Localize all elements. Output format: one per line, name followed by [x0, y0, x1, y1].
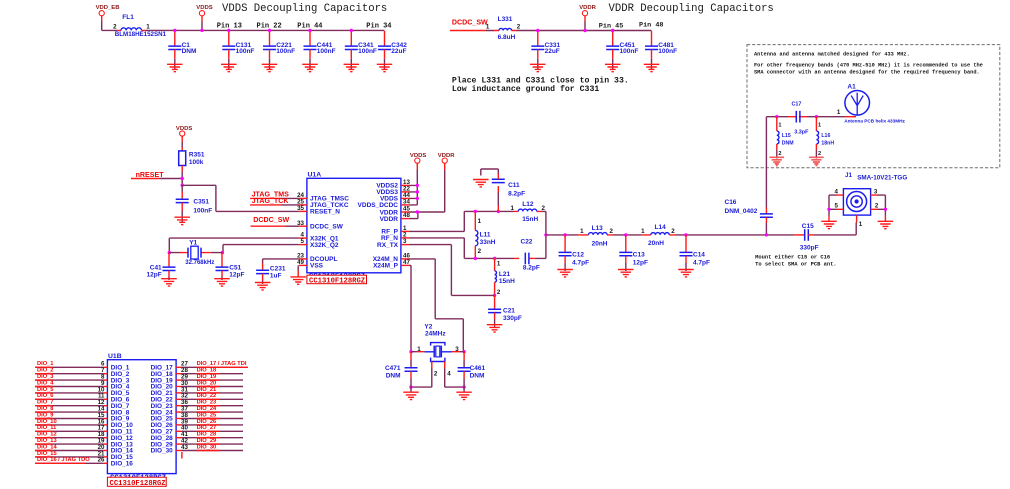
svg-text:DIO_16 / JTAG TDO: DIO_16 / JTAG TDO	[37, 457, 90, 463]
svg-text:DCDC_SW: DCDC_SW	[452, 19, 488, 27]
svg-text:2: 2	[434, 370, 438, 377]
svg-text:SMA connector with an antenna: SMA connector with an antenna designed f…	[754, 70, 980, 76]
svg-text:C51: C51	[229, 265, 241, 272]
svg-text:12pF: 12pF	[229, 272, 244, 279]
svg-text:FL1: FL1	[122, 14, 134, 21]
svg-text:DIO_6: DIO_6	[37, 393, 53, 399]
svg-text:4.7pF: 4.7pF	[693, 260, 710, 267]
svg-text:DIO_4: DIO_4	[37, 380, 54, 386]
svg-text:L14: L14	[655, 224, 667, 231]
svg-text:Pin 45: Pin 45	[599, 23, 623, 31]
svg-text:1: 1	[511, 205, 515, 212]
svg-text:1: 1	[417, 346, 421, 353]
svg-text:100nF: 100nF	[276, 48, 295, 55]
svg-text:3: 3	[874, 188, 878, 195]
svg-text:C14: C14	[693, 252, 705, 259]
svg-text:BLM18HE152SN1: BLM18HE152SN1	[115, 31, 167, 38]
svg-text:22uF: 22uF	[391, 48, 406, 55]
svg-text:C15: C15	[802, 223, 814, 230]
svg-text:4.7pF: 4.7pF	[572, 260, 589, 267]
svg-text:DIO_12: DIO_12	[37, 432, 57, 438]
svg-text:U1A: U1A	[308, 172, 322, 179]
svg-text:C471: C471	[385, 365, 401, 372]
svg-text:18nH: 18nH	[821, 141, 834, 147]
svg-text:DIO_19: DIO_19	[197, 374, 217, 380]
svg-text:12pF: 12pF	[147, 272, 162, 279]
svg-text:100nF: 100nF	[193, 208, 212, 215]
svg-text:12pF: 12pF	[633, 260, 648, 267]
svg-text:DIO_5: DIO_5	[37, 387, 53, 393]
svg-text:L15: L15	[782, 133, 791, 139]
svg-text:100nF: 100nF	[317, 48, 336, 55]
svg-text:DCDC_SW: DCDC_SW	[253, 216, 289, 224]
svg-text:2: 2	[671, 228, 675, 235]
svg-text:DNM: DNM	[386, 373, 401, 380]
svg-text:1: 1	[818, 122, 821, 128]
svg-text:U1B: U1B	[108, 353, 122, 360]
svg-text:2: 2	[818, 151, 821, 157]
svg-text:C351: C351	[193, 199, 209, 206]
svg-text:VDDS: VDDS	[196, 5, 212, 11]
svg-text:Pin 44: Pin 44	[297, 23, 322, 31]
svg-text:DIO_14: DIO_14	[37, 444, 57, 450]
svg-text:100nF: 100nF	[620, 48, 639, 55]
svg-text:1: 1	[146, 24, 150, 31]
svg-text:330pF: 330pF	[503, 315, 522, 322]
svg-text:DNM: DNM	[182, 48, 197, 55]
svg-text:1: 1	[859, 221, 863, 228]
svg-text:5: 5	[834, 203, 838, 210]
svg-text:15nH: 15nH	[522, 216, 538, 223]
svg-text:2: 2	[478, 248, 482, 255]
svg-text:Low inductance ground for C331: Low inductance ground for C331	[452, 84, 599, 94]
svg-text:100nF: 100nF	[236, 48, 255, 55]
svg-text:2: 2	[542, 205, 546, 212]
svg-text:4: 4	[447, 370, 451, 377]
svg-text:1: 1	[580, 228, 584, 235]
svg-text:DNM: DNM	[470, 373, 485, 380]
svg-text:VSS: VSS	[310, 263, 324, 270]
svg-text:32.768kHz: 32.768kHz	[185, 260, 214, 266]
svg-text:Antenna and antenna matched de: Antenna and antenna matched designed for…	[754, 51, 910, 57]
svg-text:C461: C461	[470, 365, 486, 372]
svg-text:1: 1	[478, 218, 482, 225]
svg-text:X24M_P: X24M_P	[373, 263, 399, 270]
svg-text:24MHz: 24MHz	[425, 331, 446, 338]
svg-text:DIO_13: DIO_13	[37, 438, 57, 444]
svg-text:C11: C11	[508, 182, 520, 189]
svg-text:DIO_16: DIO_16	[111, 461, 133, 468]
svg-text:C231: C231	[270, 266, 286, 273]
svg-text:2: 2	[517, 24, 521, 31]
svg-text:100k: 100k	[189, 159, 204, 166]
svg-text:22uF: 22uF	[545, 48, 560, 55]
svg-text:Y1: Y1	[189, 239, 197, 246]
svg-text:VDDR Decoupling Capacitors: VDDR Decoupling Capacitors	[609, 3, 774, 15]
svg-text:100nF: 100nF	[658, 48, 677, 55]
svg-text:A1: A1	[847, 84, 856, 91]
svg-text:3.3pF: 3.3pF	[794, 129, 809, 135]
svg-text:CC1310F128RGZ: CC1310F128RGZ	[110, 480, 166, 488]
svg-text:For other frequency bands (470: For other frequency bands (470 MHz-510 M…	[754, 63, 983, 69]
svg-text:VDDR: VDDR	[380, 216, 399, 223]
svg-text:330pF: 330pF	[800, 244, 819, 251]
svg-text:DIO_22: DIO_22	[197, 393, 217, 399]
svg-text:1: 1	[497, 260, 501, 267]
svg-text:DIO_7: DIO_7	[37, 400, 53, 406]
svg-text:C22: C22	[521, 238, 533, 245]
svg-text:L331: L331	[498, 16, 513, 23]
svg-text:VDDS_DCDC: VDDS_DCDC	[358, 202, 399, 209]
svg-text:DIO_21: DIO_21	[197, 387, 217, 393]
svg-text:C17: C17	[792, 102, 802, 108]
svg-text:DNM: DNM	[782, 141, 794, 147]
svg-text:DIO_9: DIO_9	[37, 412, 53, 418]
svg-text:1: 1	[837, 109, 841, 116]
svg-text:DIO_25: DIO_25	[197, 412, 217, 418]
svg-text:C13: C13	[633, 252, 645, 259]
svg-text:R351: R351	[189, 152, 205, 159]
svg-text:X32K_Q2: X32K_Q2	[310, 242, 339, 249]
svg-text:VDDS Decoupling Capacitors: VDDS Decoupling Capacitors	[222, 3, 387, 15]
svg-text:20nH: 20nH	[592, 241, 608, 248]
svg-text:Pin 22: Pin 22	[257, 23, 282, 31]
svg-text:SMA-10V21-TGG: SMA-10V21-TGG	[857, 175, 907, 182]
svg-text:DIO_28: DIO_28	[197, 432, 217, 438]
svg-text:L16: L16	[821, 133, 830, 139]
svg-text:DIO_30: DIO_30	[151, 448, 173, 455]
svg-text:JTAG_TCK: JTAG_TCK	[252, 197, 290, 205]
svg-text:Pin 13: Pin 13	[217, 23, 242, 31]
svg-text:1: 1	[778, 122, 781, 128]
svg-text:4: 4	[834, 188, 838, 195]
svg-text:VDD_EB: VDD_EB	[96, 5, 120, 11]
svg-text:100nF: 100nF	[358, 48, 377, 55]
svg-text:C12: C12	[572, 252, 584, 259]
svg-text:Pin 34: Pin 34	[366, 23, 391, 31]
svg-text:L21: L21	[499, 271, 511, 278]
svg-text:DIO_27: DIO_27	[197, 425, 217, 431]
svg-text:CC1310F128RGZ: CC1310F128RGZ	[309, 277, 365, 285]
svg-text:L12: L12	[522, 201, 534, 208]
svg-text:DCDC_SW: DCDC_SW	[310, 224, 344, 231]
svg-text:L11: L11	[480, 232, 491, 239]
svg-text:DIO_3: DIO_3	[37, 374, 53, 380]
svg-text:C16: C16	[725, 199, 737, 206]
svg-text:C21: C21	[503, 308, 515, 315]
svg-text:RX_TX: RX_TX	[377, 242, 399, 249]
svg-text:DIO_2: DIO_2	[37, 368, 53, 374]
svg-text:J1: J1	[845, 172, 853, 179]
svg-text:DNM_0402: DNM_0402	[725, 208, 758, 215]
svg-text:RESET_N: RESET_N	[310, 209, 340, 216]
svg-text:To select SMA or PCB ant.: To select SMA or PCB ant.	[755, 260, 837, 267]
svg-text:8.2pF: 8.2pF	[508, 190, 525, 197]
svg-text:20nH: 20nH	[648, 240, 664, 247]
svg-text:6.8uH: 6.8uH	[498, 34, 516, 41]
svg-text:L13: L13	[592, 225, 604, 232]
svg-text:VDDR: VDDR	[579, 5, 596, 11]
svg-text:DIO_11: DIO_11	[37, 425, 56, 431]
svg-text:C41: C41	[150, 265, 162, 272]
svg-text:2: 2	[875, 203, 879, 210]
svg-text:2: 2	[497, 289, 501, 296]
svg-text:DIO_17 / JTAG TDI: DIO_17 / JTAG TDI	[197, 361, 247, 367]
svg-text:8.2pF: 8.2pF	[523, 265, 540, 272]
svg-text:DIO_24: DIO_24	[197, 406, 217, 412]
svg-text:DIO_26: DIO_26	[197, 419, 217, 425]
svg-text:DIO_1: DIO_1	[37, 361, 53, 367]
svg-text:DIO_10: DIO_10	[37, 419, 57, 425]
svg-text:nRESET: nRESET	[136, 171, 165, 179]
svg-text:DIO_30: DIO_30	[197, 444, 217, 450]
svg-text:Y2: Y2	[424, 323, 432, 330]
svg-text:2: 2	[610, 228, 614, 235]
svg-text:Antenna PCB helix 433MHz: Antenna PCB helix 433MHz	[844, 119, 905, 124]
svg-text:DIO_18: DIO_18	[197, 368, 217, 374]
svg-text:DIO_8: DIO_8	[37, 406, 53, 412]
svg-text:3: 3	[455, 346, 459, 353]
svg-text:1uF: 1uF	[270, 273, 282, 280]
svg-text:15nH: 15nH	[499, 278, 515, 285]
svg-text:DIO_29: DIO_29	[197, 438, 217, 444]
svg-text:33nH: 33nH	[480, 239, 496, 246]
svg-text:DIO_20: DIO_20	[197, 380, 217, 386]
svg-text:1: 1	[641, 228, 645, 235]
svg-text:Pin 48: Pin 48	[639, 22, 663, 30]
svg-text:DIO_23: DIO_23	[197, 400, 217, 406]
svg-text:1: 1	[486, 24, 490, 31]
svg-text:2: 2	[113, 24, 117, 31]
svg-text:Place L331 and C331 close to p: Place L331 and C331 close to pin 33.	[452, 76, 629, 86]
svg-text:DIO_15: DIO_15	[37, 451, 57, 457]
svg-text:2: 2	[778, 151, 781, 157]
